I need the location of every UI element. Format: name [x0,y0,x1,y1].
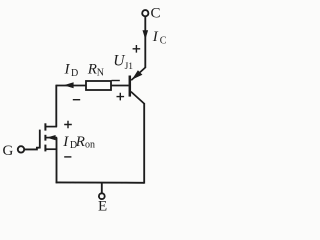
channel segment middle [44,135,46,141]
svg-text:C: C [160,36,167,47]
emitter diagonal from C rail to base bar [131,68,145,81]
terminal C [142,10,148,16]
gate bar [39,130,41,149]
label + of U_J1 [133,45,141,53]
wire collector rail from C [144,16,146,68]
arrow I_D (leftward on top wire) [64,82,74,88]
svg-text:J1: J1 [125,62,134,72]
svg-text:N: N [97,68,104,79]
svg-text:R: R [87,61,97,77]
label - of U_J1 [112,80,120,82]
svg-text:I: I [62,134,69,150]
svg-text:R: R [75,134,85,150]
svg-text:I: I [152,29,159,45]
collector diagonal to E rail [131,92,144,104]
svg-text:G: G [3,143,14,159]
channel segment bottom [44,145,46,152]
terminal E [99,193,105,199]
wire source rail down [56,138,58,184]
drain lead [46,126,57,128]
svg-text:I: I [64,62,71,78]
arrow I_C (downward on collector rail) [143,30,149,39]
wire gate lead [24,148,39,150]
arrow body (points left into channel) [47,135,56,140]
svg-text:on: on [85,140,95,151]
svg-text:C: C [151,6,161,22]
base bar [129,76,132,97]
wire left drain rail [55,85,57,127]
label + of R_N drop [117,93,125,101]
terminal G [18,146,24,152]
label - of MOSFET drop [64,156,71,158]
label + of MOSFET drop [64,121,72,129]
wire bottom horizontal [56,181,145,183]
svg-text:D: D [71,68,78,79]
transistor Q1 (PNP) [130,68,146,104]
channel segment top [44,123,46,130]
body lead [46,137,57,139]
wire right emitter rail [143,103,145,184]
wire top horizontal drain-to-base [56,85,128,87]
arrow emitter (points into base bar) [132,70,143,79]
source lead [46,148,57,150]
transistor V (N-MOSFET) [40,123,57,151]
label - of R_N drop [73,99,80,101]
svg-text:E: E [98,198,107,214]
wire E stub [101,183,103,194]
resistor R_N [86,81,111,90]
